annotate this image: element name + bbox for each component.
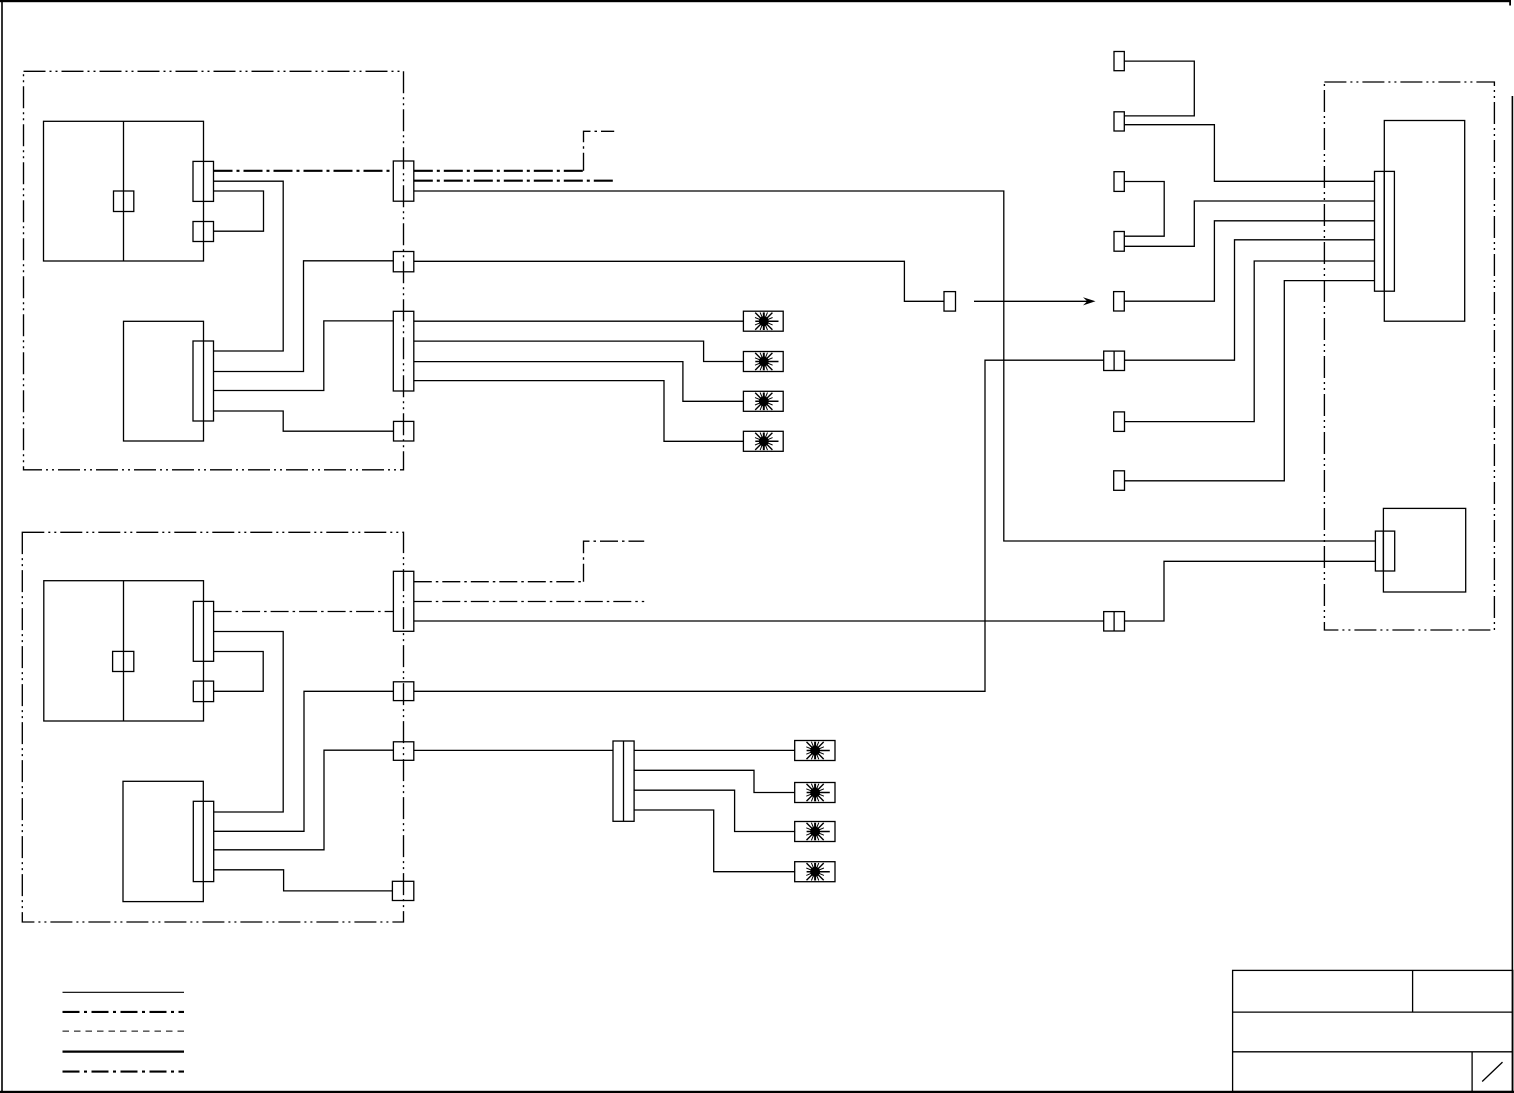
wire X3 pin1 to lamp E1 [414,320,744,322]
inline connector P6 [1114,412,1125,432]
lamp E3 [743,391,783,411]
connector U3-A [1375,171,1395,291]
wire K3 to right lower connector pin2 [1125,561,1376,621]
wire M2 pin3 to boundary connector X7 [214,750,394,850]
legend line 2 (thick dash-dot) [63,1011,185,1013]
wire M2 pin4 to boundary connector X8 [214,870,393,891]
inline connector P2 [1114,112,1124,131]
control unit U2 (lower left) [44,581,204,721]
connector U4-A [1375,531,1394,571]
wire M1 pin3 to boundary connector X3 [214,321,394,391]
page left border line [1,0,3,1093]
control unit U1 (upper left) [44,121,204,261]
signal arrow [974,297,1096,305]
inline connector K1 [944,292,956,312]
wire P6 to right module connector pin5 [1125,261,1375,422]
wire U2-A pin3 to U2-B (u-loop) [214,652,264,692]
legend line 5 (thick dash-dot) [63,1071,185,1073]
harness boundary box (right) [1324,82,1494,630]
lamp E4 [743,431,783,451]
wire J1 pin2 to lamp E6 [634,770,795,792]
page top border bar [0,0,1511,6]
wire P4 to right module connector pin2 [1124,201,1374,246]
lamp E6 [795,783,835,803]
connector U1-B [193,222,214,242]
wire J1 pin4 to lamp E8 [634,810,795,872]
inline connector P4 [1114,232,1124,252]
wire X1 pin2 thick dash-dot stub [414,180,614,182]
boundary connector X3 [393,311,414,391]
inline connector P5 [1114,292,1125,311]
wire X5 pin1 dash-dot riser stub [584,541,645,582]
wire X5 pin3 to inline connector K3 [414,620,1104,622]
wire J1 pin1 to lamp E5 [634,749,795,751]
wire X3 pin3 to lamp E3 [414,362,744,402]
display unit U4 (right) [1383,508,1465,592]
inline connector K3 (pair) [1104,612,1125,631]
wire P5 to right module connector pin3 [1124,221,1374,301]
connector M1-A [193,341,214,421]
wire P7 to right module connector pin6 [1125,281,1375,481]
connector U2-B [193,681,213,702]
wire U1-A pin1 thick dash-dot to boundary connector X1 [214,170,394,172]
junction connector J1 [613,741,634,821]
harness boundary box (lower left) [22,532,403,922]
wire K2 to right module connector pin4 [1125,240,1375,360]
inline connector K2 (pair) [1104,351,1125,370]
inline connector P1 [1114,52,1124,71]
wire M2 pin1 to U2-A pin2 [214,632,284,813]
wire M1 pin4 to boundary connector X4 [214,411,394,431]
harness boundary box (upper left) [24,71,404,470]
wire X3 pin4 to lamp E4 [414,381,744,442]
wire X5 pin1 dash-dot stub [414,581,584,583]
lamp E5 [795,741,835,761]
wire P2 to right module connector pin1 [1124,125,1374,182]
inline connector P3 [1114,172,1124,192]
wire X5 pin2 dash-dot stub [414,601,644,603]
lamp E1 [743,311,783,331]
connector M2-A [193,801,213,881]
wire J1 pin3 to lamp E7 [634,790,795,831]
wire X1 pin3 to right module connector pin1 (long) [414,191,1376,541]
wire U2-A pin1 dash-dot to boundary connector X5 [214,611,394,613]
legend line 4 (thick solid) [63,1050,185,1052]
boundary connector X1 [393,161,414,201]
legend line 3 (thin dashed) [63,1030,185,1032]
connector U2-A [193,601,213,661]
boundary connector X6 [393,682,413,701]
wire U1-A pin3 to U1-B (u-loop) [214,191,264,231]
wire X6 to inline connector K2 [414,360,1104,691]
lamp E7 [795,822,835,842]
boundary connector X4 [394,421,414,441]
boundary connector X2 [393,252,414,272]
wire X7 to junction connector J1 [414,749,613,751]
legend line 1 (thin solid) [63,991,185,993]
relay module M2 (lower left) [123,781,203,901]
inline connector P7 [1114,471,1125,491]
boundary connector X8 [392,881,413,900]
boundary connector X7 [393,742,413,761]
wire X2 to inline connector K1 [414,261,944,301]
wire M2 pin2 to boundary connector X6 [214,691,394,831]
control unit U3 (right) [1384,121,1464,322]
relay module M1 (upper left) [124,321,204,441]
connector U1-A [193,161,214,201]
wire M1 pin2 to boundary connector X2 [214,261,394,372]
wire X1 pin1 thick dash-dot stub [414,170,584,172]
wire M1 pin1 to U1-A pin2 [214,181,284,351]
wire P3 to P4 [1124,182,1164,237]
lamp E2 [743,352,783,372]
boundary connector X5 [393,571,413,631]
wire X3 pin2 to lamp E2 [414,341,744,361]
page bottom border bar [0,1091,1514,1093]
title block [1233,970,1513,1091]
wire P1 to P2 [1124,61,1194,116]
page right border line [1512,96,1514,1093]
wire X1 pin1 dash-dot riser stub [584,131,615,171]
lamp E8 [795,862,835,882]
